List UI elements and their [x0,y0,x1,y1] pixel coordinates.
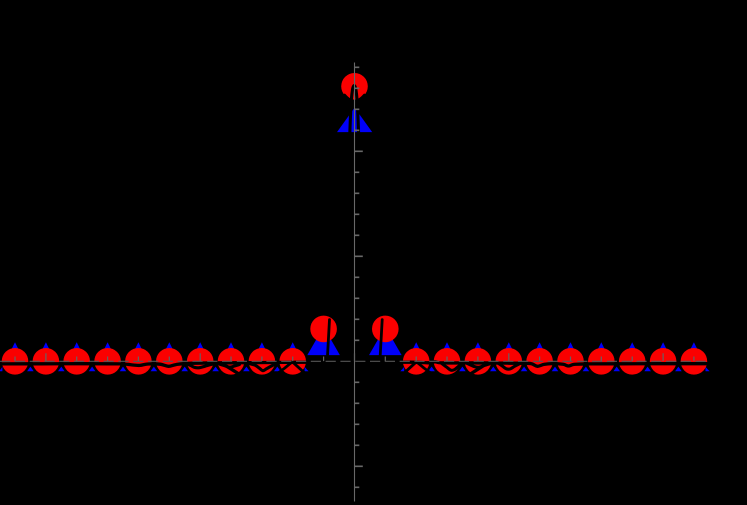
triangle corner blob at x=585.9 [583,367,590,372]
triangle marker k=-1 [307,327,340,355]
triangle corner blob at x=153.9 [151,367,158,372]
circle marker k=3 [434,348,461,375]
triangle marker k=10 apex tip [660,342,667,349]
curve: dip at k=+5 [499,364,519,369]
triangle marker k=0 [337,108,372,133]
triangle corner blob at x=61.3 [58,367,65,372]
x-axis ticks [15,353,694,361]
triangle corner blob at x=647.6 [644,367,651,372]
triangle marker k=11 apex tip [690,342,697,349]
circle marker k=-5 [187,348,214,375]
triangle marker k=-2 apex tip [289,342,296,349]
triangle corner blob at x=277.3 [274,367,281,372]
circle marker k=1 [372,316,399,343]
triangle marker k=-8 apex tip [104,342,111,349]
triangle marker k=4 apex tip [474,342,481,349]
triangle corner wedge at left edge [0,367,2,371]
circle marker k=9 [619,348,646,375]
curve: near-zero baseline across plot [0,362,709,367]
circle marker k=6 [526,348,553,375]
circle marker k=-10 [33,348,60,375]
triangle marker k=3 apex tip [443,342,450,349]
triangle corner blob at x=678.4 [675,367,682,372]
curve: dip at k=-3 [250,364,276,371]
triangle marker k=-5 apex tip [197,342,204,349]
circle marker k=11 [681,348,708,375]
triangle corner blob at x=555.0 [552,367,559,372]
circle marker k=-4 [218,348,245,375]
triangle corner blob at x=215.6 [212,367,219,372]
curve: dip at k=+3 [442,363,463,370]
triangle marker k=-6 apex tip [166,342,173,349]
curve: left wedge in center circle [345,95,352,101]
circle marker k=-6 [156,348,183,375]
circle marker k=4 [465,348,492,375]
curve: dip at k=+4 [466,363,490,368]
triangle marker k=1 [369,327,402,355]
triangle marker k=-9 apex tip [73,342,80,349]
curve: steep bar k=-1 [327,320,329,360]
circle marker k=-1 [310,316,337,343]
triangle corner blob at x=246.4 [243,367,250,372]
y-axis ticks [355,67,363,487]
triangle marker k=5 apex tip [505,342,512,349]
triangle marker k=2 apex tip [413,342,420,349]
curve: slash at k=+4 [469,366,483,375]
triangle marker k=-10 apex tip [42,342,49,349]
curve: smile at k=-4 [220,364,240,367]
triangle marker k=-4 apex tip [227,342,234,349]
triangle corner blob at x=493.3 [490,367,497,372]
triangle marker k=-11 apex tip [11,342,18,349]
triangle corner blob at x=184.7 [181,367,188,372]
triangle corner blob at x=616.7 [613,367,620,372]
circle marker k=0 [341,73,368,100]
circle marker k=-11 [2,348,29,375]
triangle corner blob at x=30.4 [27,367,34,372]
triangle corner wedge right of k=-2 [305,367,309,371]
triangle corner blob at x=431.6 [428,367,435,372]
triangle corner blob at x=92.1 [89,367,96,372]
curve: central spike [349,86,359,152]
circle marker k=-9 [63,348,90,375]
triangle corner blob at x=462.4 [459,367,466,372]
triangle corner wedge left of k=+2 [400,367,404,371]
circle marker k=2 [403,348,430,375]
circle marker k=-7 [125,348,152,375]
circle marker k=7 [557,348,584,375]
y-axis line [354,63,356,502]
circle marker k=-2 [279,348,306,375]
circle marker k=-3 [249,348,276,375]
triangle marker k=7 apex tip [567,342,574,349]
curve: right wedge in center circle [357,95,364,101]
triangle corner wedge at right edge [706,367,710,371]
circle marker k=8 [588,348,615,375]
curve: steep bar k=+1 [380,320,382,360]
triangle corner blob at x=123.0 [120,367,127,372]
triangle corner blob at x=524.1 [521,367,528,372]
triangle marker k=8 apex tip [598,342,605,349]
triangle marker k=9 apex tip [629,342,636,349]
curve: dip at k=-5 [188,364,213,368]
circle marker k=-8 [94,348,121,375]
curve: slash at k=-4 [227,366,241,375]
curve: rise-fall at k=-2 [274,362,310,378]
circle marker k=10 [650,348,677,375]
x-axis dashed line [0,360,709,362]
circle marker k=5 [496,348,523,375]
triangle marker k=-3 apex tip [258,342,265,349]
triangle marker k=-7 apex tip [135,342,142,349]
triangle marker k=6 apex tip [536,342,543,349]
curve: rise-fall at k=+2 [399,362,435,378]
